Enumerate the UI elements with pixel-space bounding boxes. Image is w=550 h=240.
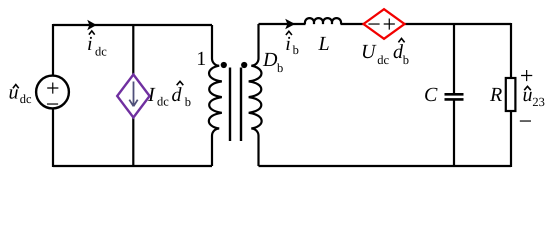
svg-text:23: 23 (532, 95, 545, 109)
svg-text:I: I (147, 84, 156, 106)
svg-text:−: − (46, 92, 60, 118)
svg-text:L: L (318, 33, 330, 55)
capacitor C plates (445, 94, 464, 99)
svg-text:C: C (424, 84, 438, 106)
wire: dependent current source branch (132, 24, 134, 167)
wire: right edge vertical (510, 23, 512, 167)
svg-text:dc: dc (157, 95, 169, 109)
resistor R box (506, 78, 516, 111)
svg-text:b: b (185, 95, 191, 109)
wire: left loop top rail (53, 24, 212, 26)
svg-text:−: − (367, 12, 381, 38)
dependent current source inner arrow (129, 82, 137, 107)
svg-text:R: R (489, 84, 502, 106)
wire: left vertical through source (52, 24, 54, 167)
transformer secondary winding (249, 24, 262, 166)
svg-text:i: i (285, 33, 291, 55)
label u_dc hat (13, 85, 19, 89)
svg-text:D: D (262, 49, 278, 71)
transformer primary dot (221, 62, 227, 68)
transformer primary winding (209, 25, 222, 166)
label I_dc d_b hat (177, 81, 184, 85)
dependent current source diamond I_dc*d_b (117, 75, 149, 118)
svg-text:dc: dc (377, 53, 389, 67)
wire: right loop top rail (259, 23, 512, 25)
svg-text:U: U (361, 41, 377, 63)
inductor L (305, 18, 341, 24)
svg-text:−: − (519, 109, 533, 135)
arrow i_b on top rail (285, 19, 295, 29)
svg-text:+: + (383, 12, 397, 38)
transformer core (230, 68, 241, 142)
transformer secondary dot (241, 62, 247, 68)
svg-text:u: u (523, 84, 533, 106)
svg-text:b: b (277, 61, 283, 75)
svg-text:dc: dc (95, 44, 107, 58)
capacitor C branch wire (453, 23, 455, 167)
svg-text:i: i (87, 33, 93, 55)
label U_dc d_b hat (398, 38, 404, 42)
svg-text:d: d (172, 84, 183, 106)
dependent voltage source diamond U_dc*d_b (364, 9, 405, 39)
label i_dc hat (89, 31, 95, 35)
svg-text:1: 1 (196, 48, 206, 70)
label u_23 hat (524, 86, 531, 90)
wire: left loop bottom rail (53, 165, 212, 167)
svg-text:b: b (403, 53, 409, 67)
label i_b hat (286, 31, 292, 35)
svg-text:dc: dc (20, 92, 32, 106)
svg-text:u: u (9, 81, 19, 103)
arrow i_dc on top rail (87, 20, 96, 30)
voltage source U_dc circle (36, 76, 69, 109)
svg-text:b: b (293, 43, 299, 57)
wire: right loop bottom rail (259, 165, 512, 167)
